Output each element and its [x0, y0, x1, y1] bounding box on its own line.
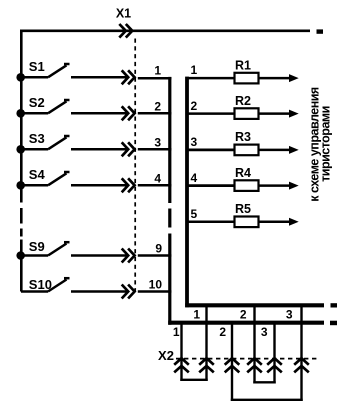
wire: trunk to R1	[186, 77, 236, 80]
wire: upper bottom trunk (from right trunk)	[185, 303, 324, 307]
wire: R3 to output arrow	[259, 149, 291, 152]
left group trunk line (lower solid part)	[168, 234, 171, 325]
resistor R5	[235, 217, 259, 228]
svg-text:S1: S1	[29, 59, 45, 74]
svg-text:3: 3	[286, 307, 293, 321]
svg-text:3: 3	[191, 135, 198, 149]
switch S1	[21, 64, 70, 77]
svg-text:2: 2	[191, 99, 198, 113]
resistor R4	[235, 180, 259, 191]
switch S9	[21, 242, 70, 255]
wire: connector to left trunk row 2	[138, 112, 172, 115]
wire: connector to left trunk row 1	[138, 77, 172, 80]
svg-text:S3: S3	[29, 131, 45, 146]
resistor R1	[235, 73, 259, 84]
wire: top horizontal feed	[20, 29, 310, 32]
svg-text:X1: X1	[116, 7, 131, 21]
svg-text:S9: S9	[29, 239, 45, 254]
arrow: output 1	[289, 74, 299, 82]
svg-text:5: 5	[191, 207, 198, 221]
connector contact chevrons row 3	[122, 142, 135, 156]
arrow: output 2	[289, 110, 299, 118]
wire: drop 2 from lower trunk to X2	[231, 323, 233, 401]
switch S10	[21, 278, 70, 291]
svg-text:10: 10	[149, 278, 163, 292]
wire: drop 1 from upper trunk to X2	[205, 305, 207, 381]
svg-text:2: 2	[154, 99, 161, 113]
svg-text:R5: R5	[235, 202, 251, 216]
connector X2 contact chevrons pin 2b	[247, 358, 262, 372]
connector X2 contact chevrons pin 1b	[199, 358, 214, 372]
wire: trunk to R2	[186, 112, 236, 115]
wire: connector to left trunk row 10	[138, 290, 172, 293]
connector X2 contact chevrons pin 1a	[174, 358, 189, 372]
node: junction dot S4	[16, 181, 25, 190]
wire: connector to left trunk row 4	[138, 184, 172, 187]
wire: drop 3 from lower trunk to X2	[273, 323, 275, 384]
wire: top feed continuation dash	[317, 29, 324, 33]
wire: R1 to output arrow	[259, 77, 291, 80]
right group trunk line	[185, 77, 189, 308]
wire: S3 to connector	[71, 148, 129, 151]
wire: connector to left trunk row 9	[138, 254, 172, 257]
svg-text:X2: X2	[158, 348, 174, 363]
svg-text:2: 2	[240, 307, 247, 321]
wire: S4 to connector	[71, 184, 129, 187]
svg-text:4: 4	[191, 171, 198, 185]
arrow: output 3	[289, 146, 299, 154]
node: junction dot S1	[16, 73, 25, 82]
svg-text:4: 4	[154, 171, 161, 185]
left group trunk line (dashed omitted part)	[168, 209, 171, 228]
wire: lower bottom trunk continuation dash	[330, 321, 337, 326]
connector X1 dashed separation line	[134, 39, 136, 293]
svg-text:3: 3	[154, 135, 161, 149]
wire: S9 to connector	[71, 254, 129, 257]
svg-text:тиристорами: тиристорами	[319, 106, 333, 182]
wire: left bus dashed continuation segment (S5..S8 omitted)	[20, 208, 23, 224]
connector X2 contact chevrons pin 3a	[267, 358, 282, 372]
wire: trunk to R3	[186, 148, 236, 151]
connector contact chevrons row 4	[122, 178, 135, 192]
svg-text:R1: R1	[235, 59, 251, 73]
connector contact chevrons row 10	[122, 285, 135, 299]
connector contact chevrons row 9	[122, 249, 135, 263]
wire: S1 to connector	[71, 76, 129, 79]
wire: trunk to R4	[186, 184, 236, 187]
svg-text:1: 1	[193, 307, 200, 321]
svg-text:2: 2	[219, 325, 226, 339]
resistor R3	[235, 145, 259, 156]
connector X2 dashed separation line	[176, 358, 317, 360]
connector contact chevrons row 1	[122, 70, 135, 84]
connector contact chevrons row 2	[122, 106, 135, 120]
wire: lower bottom trunk (from left trunk)	[168, 321, 324, 325]
wire: S2 to connector	[71, 112, 129, 115]
wire: drop 1 from lower trunk to X2	[180, 323, 182, 381]
svg-text:R2: R2	[235, 94, 251, 108]
wire: jumper loop pair 2	[253, 381, 275, 383]
switch S2	[21, 100, 70, 113]
wire: upper bottom trunk continuation dash	[331, 303, 338, 307]
wire: jumper outer loop pair 3	[231, 399, 303, 401]
arrow: output 5	[289, 218, 299, 226]
node: junction dot S2	[16, 109, 25, 118]
connector X2 contact chevrons pin 2a	[225, 358, 240, 372]
svg-text:1: 1	[191, 63, 198, 77]
wire: R2 to output arrow	[259, 112, 291, 115]
wire: S10 to connector	[71, 290, 129, 293]
connector X2 contact chevrons pin 3b	[294, 358, 309, 372]
wire: connector to left trunk row 3	[138, 148, 172, 151]
resistor R2	[235, 108, 259, 119]
svg-text:3: 3	[261, 325, 268, 339]
wire: left vertical bus (upper solid part)	[20, 30, 23, 203]
svg-text:9: 9	[155, 242, 162, 256]
wire: jumper loop pair 1	[180, 379, 207, 381]
wire: drop 2 from upper trunk to X2	[253, 305, 255, 383]
svg-text:R3: R3	[235, 130, 251, 144]
switch S3	[21, 136, 70, 149]
svg-text:1: 1	[173, 325, 180, 339]
node: junction dot S3	[16, 145, 25, 154]
connector X1 contact chevrons	[119, 24, 132, 38]
svg-text:S4: S4	[29, 167, 46, 182]
wire: left vertical bus (lower solid part)	[20, 240, 23, 292]
node: junction dot S9	[16, 251, 25, 260]
svg-text:S2: S2	[29, 95, 45, 110]
wire: drop 3 from upper trunk to X2	[300, 305, 302, 401]
switch S4	[21, 172, 70, 185]
svg-text:1: 1	[154, 63, 161, 77]
left group trunk line (upper solid part)	[168, 77, 171, 203]
wire: R5 to output arrow	[259, 221, 291, 224]
wire: R4 to output arrow	[259, 184, 291, 187]
arrow: output 4	[289, 182, 299, 190]
svg-text:S10: S10	[29, 277, 52, 292]
svg-text:R4: R4	[235, 166, 251, 180]
wire: trunk to R5	[186, 221, 236, 224]
